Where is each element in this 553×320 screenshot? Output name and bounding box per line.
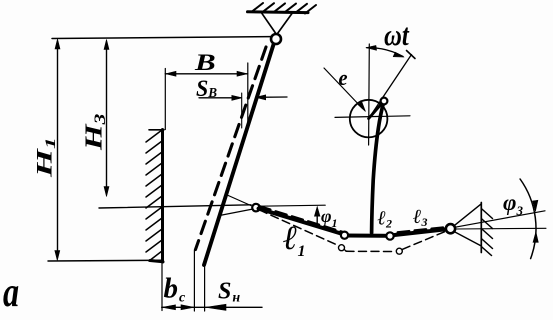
- svg-text:ωt: ωt: [384, 18, 410, 52]
- svg-text:e: e: [339, 65, 348, 90]
- svg-text:a: a: [3, 270, 19, 316]
- svg-text:B: B: [194, 50, 216, 75]
